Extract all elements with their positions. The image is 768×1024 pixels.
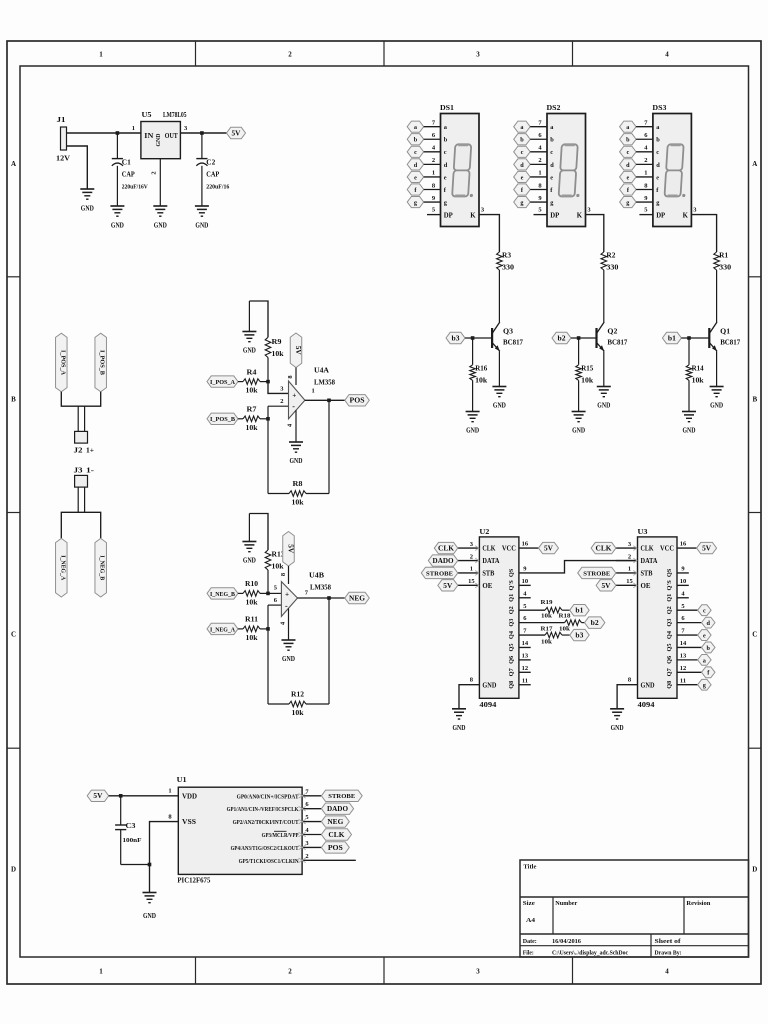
- U1 MCLR overline: [274, 830, 287, 832]
- junction U4A noninv node: [266, 380, 270, 384]
- wire DS1 segment d: [424, 163, 441, 165]
- svg-text:Q3: Q3: [508, 619, 515, 627]
- junction C3 top: [119, 794, 123, 798]
- resistor R4: [243, 379, 260, 385]
- wire Q3 emitter to ground: [498, 351, 500, 386]
- wire b3 to base: [465, 337, 492, 339]
- svg-text:U4A: U4A: [314, 367, 330, 375]
- svg-text:GND: GND: [466, 426, 479, 435]
- svg-text:220uF/16V: 220uF/16V: [122, 183, 148, 190]
- wire DS2 segment g: [530, 201, 547, 203]
- svg-text:a: a: [520, 124, 523, 131]
- port I_POS_A: [207, 376, 238, 387]
- wire R16 to ground: [472, 380, 474, 411]
- wire U2 QS to U3 DATA: [519, 561, 638, 573]
- resistor R14: [686, 365, 692, 381]
- svg-text:U4B: U4B: [309, 572, 324, 580]
- svg-text:Size: Size: [523, 900, 535, 907]
- svg-text:IN: IN: [144, 132, 153, 140]
- junction Q1 base node: [687, 336, 691, 340]
- wire from J3 pin 1: [77, 487, 79, 512]
- svg-text:3: 3: [476, 968, 480, 976]
- wire R9 to node: [267, 358, 269, 382]
- svg-text:GND: GND: [282, 654, 295, 663]
- wire R12 to output: [306, 703, 329, 705]
- svg-text:1: 1: [432, 170, 435, 177]
- wire U3 output to g: [677, 684, 698, 686]
- wire DS1 segment e: [424, 176, 441, 178]
- svg-text:b1: b1: [668, 335, 677, 342]
- port I_POS_B vertical: [95, 333, 107, 392]
- port POS: [345, 395, 370, 406]
- U2 left pin stub 1: [458, 572, 480, 574]
- wire U5 OUT to 5V port: [180, 132, 226, 134]
- svg-text:DP: DP: [444, 213, 453, 220]
- wire U2 QS' stub: [519, 584, 531, 586]
- wire VSS run: [150, 822, 179, 893]
- svg-text:Q1: Q1: [720, 328, 731, 336]
- svg-text:10k: 10k: [292, 499, 304, 507]
- svg-text:220uF/16: 220uF/16: [206, 183, 230, 190]
- svg-text:NEG: NEG: [349, 595, 366, 602]
- svg-text:DATA: DATA: [482, 558, 499, 565]
- op-amp U4A: [289, 381, 305, 419]
- svg-text:2: 2: [644, 157, 647, 164]
- port b at U3: [702, 642, 716, 653]
- svg-text:c: c: [703, 608, 706, 615]
- ground U2: [452, 709, 466, 732]
- svg-text:b3: b3: [575, 632, 584, 639]
- svg-text:1: 1: [312, 388, 315, 395]
- svg-text:K: K: [470, 213, 476, 220]
- port d at DS2: [514, 159, 531, 170]
- ground R9: [242, 332, 256, 355]
- port I_NEG_A: [207, 623, 238, 634]
- wire DS3 segment e: [636, 176, 653, 178]
- wire U3 output to f: [677, 671, 702, 673]
- resistor R12: [289, 701, 306, 707]
- svg-text:1: 1: [644, 170, 647, 177]
- svg-text:4094: 4094: [479, 702, 497, 709]
- svg-text:Drawn By:: Drawn By:: [655, 949, 682, 956]
- wire Q2 collector net from display K: [586, 215, 604, 252]
- svg-text:Q1: Q1: [508, 594, 515, 602]
- ground R13: [242, 542, 256, 565]
- svg-text:b: b: [626, 137, 630, 144]
- title block row line 1: [520, 896, 749, 898]
- port a at U3: [698, 654, 712, 665]
- power port 5V U1: [87, 790, 109, 801]
- port NEG at U1: [321, 816, 349, 827]
- svg-text:DS3: DS3: [652, 103, 666, 112]
- svg-text:5V: 5V: [93, 793, 102, 800]
- svg-text:10k: 10k: [541, 613, 552, 620]
- resistor R17: [545, 632, 562, 638]
- wire DS1 segment c: [424, 151, 441, 153]
- svg-text:C: C: [752, 631, 757, 639]
- svg-text:U5: U5: [142, 110, 152, 119]
- U1 right pin stub 7: [302, 795, 321, 797]
- svg-text:-: -: [285, 601, 288, 610]
- wire I_NEG_A to R11: [238, 628, 243, 630]
- svg-text:16/04/2016: 16/04/2016: [552, 938, 582, 945]
- wire DS2 segment e: [530, 176, 547, 178]
- svg-text:GND: GND: [453, 723, 466, 732]
- svg-text:c: c: [550, 149, 553, 156]
- wire R19 to b1: [562, 609, 570, 611]
- svg-text:GND: GND: [143, 911, 156, 920]
- svg-text:R18: R18: [559, 613, 572, 620]
- junction U4A output node: [327, 399, 331, 403]
- svg-text:5V: 5V: [443, 583, 452, 590]
- U1 right pin stub 6: [302, 808, 321, 810]
- title block column size: [552, 897, 554, 934]
- svg-text:330: 330: [719, 264, 732, 272]
- svg-text:OE: OE: [641, 583, 651, 590]
- svg-text:Date:: Date:: [523, 938, 537, 945]
- port e at DS1: [407, 171, 424, 182]
- svg-text:GND: GND: [641, 682, 655, 689]
- svg-text:1: 1: [132, 125, 135, 132]
- svg-text:VDD: VDD: [182, 793, 197, 800]
- wire Q2 emitter to ground: [603, 351, 605, 386]
- svg-text:b: b: [520, 137, 524, 144]
- svg-text:5V: 5V: [287, 544, 294, 553]
- U2 left pin stub 3: [458, 547, 480, 549]
- wire U4A feedback vertical: [328, 400, 330, 493]
- ground J1: [80, 189, 94, 213]
- svg-text:d: d: [444, 162, 448, 169]
- svg-text:DP: DP: [550, 213, 559, 220]
- wire I_NEG_B to R10: [238, 592, 243, 594]
- wire R4 to node: [260, 381, 268, 383]
- svg-text:a: a: [703, 657, 706, 664]
- svg-text:Title: Title: [523, 864, 536, 871]
- svg-text:R7: R7: [247, 406, 258, 414]
- svg-text:2: 2: [628, 553, 631, 560]
- svg-text:DATA: DATA: [641, 558, 658, 565]
- svg-text:3: 3: [476, 51, 480, 59]
- svg-text:A: A: [752, 160, 757, 168]
- wire R7 to node: [260, 418, 268, 420]
- svg-text:CLK: CLK: [641, 546, 655, 553]
- svg-text:e: e: [414, 174, 417, 181]
- svg-text:b: b: [444, 137, 448, 144]
- junction U4B output node: [327, 596, 331, 600]
- port c at U3: [698, 605, 712, 616]
- svg-text:GND: GND: [243, 556, 256, 565]
- svg-text:CLK: CLK: [438, 546, 455, 553]
- wire 5V to U4A V+: [295, 368, 297, 386]
- svg-text:c: c: [656, 149, 659, 156]
- svg-text:R8: R8: [293, 480, 304, 488]
- port b at DS3: [620, 134, 637, 145]
- wire R10 to node: [260, 592, 268, 594]
- junction VSS node: [148, 863, 152, 867]
- svg-text:b: b: [414, 137, 418, 144]
- svg-text:DADO: DADO: [433, 558, 454, 565]
- svg-text:K: K: [683, 213, 689, 220]
- svg-text:DADO: DADO: [327, 806, 348, 813]
- svg-text:U3: U3: [638, 527, 648, 536]
- port STROBE at U2: [421, 567, 458, 578]
- wire C1 bottom: [116, 166, 118, 206]
- svg-text:1: 1: [628, 566, 631, 573]
- svg-text:I_POS_B: I_POS_B: [210, 416, 236, 423]
- svg-text:1: 1: [99, 51, 103, 59]
- port I_NEG_B: [207, 588, 238, 599]
- wire U3 output to b: [677, 646, 702, 648]
- wire R13 to node: [267, 570, 269, 593]
- svg-text:Revision: Revision: [686, 900, 710, 907]
- wire R1 to collector: [716, 270, 718, 322]
- svg-text:R14: R14: [692, 364, 704, 372]
- wire U3 Q1 stub: [677, 597, 689, 599]
- svg-text:13: 13: [522, 652, 529, 659]
- jumper J3: [75, 475, 88, 487]
- svg-text:2: 2: [305, 853, 308, 860]
- svg-text:R10: R10: [245, 580, 259, 588]
- svg-text:e: e: [550, 174, 553, 181]
- svg-text:R19: R19: [541, 599, 554, 606]
- ground R16: [466, 412, 480, 435]
- svg-text:5V: 5V: [294, 346, 301, 355]
- wire DS2 segment a: [530, 126, 547, 128]
- svg-text:4: 4: [665, 51, 669, 59]
- ground R15: [572, 412, 586, 435]
- svg-text:CAP: CAP: [122, 171, 136, 179]
- svg-text:GP4/AN3/T1G/OSC2/CLKOUT: GP4/AN3/T1G/OSC2/CLKOUT: [231, 845, 300, 852]
- svg-text:GND: GND: [611, 723, 624, 732]
- svg-text:330: 330: [606, 264, 619, 272]
- svg-text:+: +: [292, 391, 296, 399]
- svg-text:12: 12: [680, 665, 687, 672]
- power port 5V U4B: [283, 532, 295, 567]
- svg-text:12V: 12V: [56, 154, 71, 163]
- svg-text:b2: b2: [558, 335, 567, 342]
- svg-text:CLK: CLK: [596, 546, 613, 553]
- svg-text:2: 2: [280, 398, 283, 405]
- svg-text:5V: 5V: [232, 130, 241, 137]
- svg-text:GP3/MCLR/VPP: GP3/MCLR/VPP: [262, 832, 299, 839]
- svg-text:1+: 1+: [86, 447, 94, 455]
- wire U4B pin6 stub: [268, 604, 281, 606]
- svg-text:BC817: BC817: [720, 339, 740, 347]
- ground U5: [153, 206, 167, 230]
- port POS at U1: [321, 842, 349, 853]
- port c at DS3: [620, 146, 637, 157]
- junction C2 top node: [200, 131, 204, 135]
- wire C2 top: [201, 133, 203, 159]
- svg-text:Q4: Q4: [666, 630, 673, 639]
- wire base node to R16: [472, 338, 474, 365]
- wire U4A V- to ground: [295, 410, 297, 442]
- wire DS1 segment a: [424, 126, 441, 128]
- svg-text:4094: 4094: [638, 702, 656, 709]
- port b at DS1: [407, 134, 424, 145]
- svg-text:I_NEG_A: I_NEG_A: [59, 555, 66, 580]
- wire node to U4B pin5: [268, 592, 281, 594]
- capacitor C3: [115, 825, 126, 830]
- svg-text:D: D: [752, 866, 757, 874]
- svg-text:d: d: [520, 162, 524, 169]
- wire b2 to base: [571, 337, 597, 339]
- wire I_POS_B to R7: [238, 418, 243, 420]
- svg-text:POS: POS: [350, 398, 365, 405]
- U1 right pin stub 5: [302, 821, 321, 823]
- svg-text:b1: b1: [575, 608, 584, 615]
- wire U2 Q4 to R17: [519, 634, 545, 636]
- port b3 base: [446, 332, 465, 343]
- wire U5 GND pin to ground: [159, 159, 161, 206]
- U2 left pin stub 15: [458, 584, 480, 586]
- wire DS3 segment g: [636, 201, 653, 203]
- resistor R15: [576, 365, 582, 381]
- port a at DS2: [514, 121, 531, 132]
- svg-text:Q2: Q2: [607, 328, 618, 336]
- ground Q3 emitter: [492, 387, 506, 410]
- port c at DS1: [407, 146, 424, 157]
- svg-text:LM358: LM358: [314, 379, 335, 387]
- svg-text:GP2/AN2/T0CKI/INT/COUT: GP2/AN2/T0CKI/INT/COUT: [233, 819, 300, 826]
- svg-text:e: e: [444, 174, 447, 181]
- svg-text:2: 2: [151, 171, 158, 174]
- title block column revision: [683, 897, 685, 934]
- U2 GND stub: [459, 685, 479, 709]
- svg-text:1: 1: [470, 566, 473, 573]
- resistor R18: [565, 620, 582, 626]
- U3 GND stub: [617, 685, 637, 709]
- ground U3: [610, 709, 624, 732]
- svg-text:CLK: CLK: [328, 832, 345, 839]
- svg-text:1: 1: [168, 788, 171, 795]
- svg-text:C: C: [11, 631, 16, 639]
- wire C3 to VSS: [121, 864, 150, 866]
- junction C1 top node: [116, 131, 120, 135]
- wire DS3 segment a: [636, 126, 653, 128]
- svg-text:5V: 5V: [544, 546, 553, 553]
- wire Q1 emitter to ground: [716, 351, 718, 386]
- resistor R11: [243, 626, 260, 632]
- port f at U3: [702, 667, 716, 678]
- ground U4B: [282, 640, 296, 663]
- port b1 at U2: [570, 605, 590, 616]
- wire base node to R15: [578, 338, 580, 365]
- svg-text:B: B: [11, 396, 16, 404]
- svg-text:c: c: [444, 149, 447, 156]
- svg-text:16: 16: [522, 541, 529, 548]
- svg-text:BC817: BC817: [503, 339, 523, 347]
- wire U4B feedback vertical: [328, 598, 330, 704]
- port STROBE at U1: [321, 790, 362, 801]
- wire DS2 segment b: [530, 138, 547, 140]
- transistor Q3: [492, 322, 500, 351]
- svg-text:VCC: VCC: [660, 546, 674, 553]
- resistor R16: [470, 365, 476, 381]
- wire U4A gnd stub: [248, 301, 250, 332]
- svg-text:I_NEG_B: I_NEG_B: [210, 591, 236, 598]
- port b2 base: [552, 332, 571, 343]
- U1 right pin stub 4: [302, 834, 321, 836]
- svg-text:R12: R12: [291, 691, 305, 699]
- svg-text:Q8: Q8: [508, 681, 515, 689]
- svg-text:10k: 10k: [272, 563, 284, 571]
- wire U3 output to d: [677, 622, 702, 624]
- wire DS1 segment f: [424, 189, 441, 191]
- svg-text:C2: C2: [206, 158, 216, 166]
- svg-text:e: e: [626, 174, 629, 181]
- wire U2 Q2 to R19: [519, 609, 545, 611]
- power port 5V U2 VCC: [539, 542, 559, 553]
- wire C1 top: [116, 133, 118, 159]
- junction U4B noninv node: [266, 592, 270, 596]
- wire DS3 segment c: [636, 151, 653, 153]
- svg-text:Q6: Q6: [508, 656, 515, 664]
- port 5V at U3 OE: [596, 580, 616, 591]
- svg-text:I_NEG_A: I_NEG_A: [210, 626, 235, 633]
- port CLK at U1: [321, 829, 351, 840]
- svg-text:R2: R2: [606, 252, 616, 260]
- svg-text:10k: 10k: [272, 350, 284, 358]
- wire Q3 collector net from display K: [479, 215, 499, 252]
- svg-text:a: a: [626, 124, 629, 131]
- ground U1: [143, 893, 157, 921]
- svg-text:b: b: [707, 645, 711, 652]
- resistor R10: [243, 591, 260, 597]
- svg-text:10k: 10k: [475, 376, 487, 384]
- svg-text:GND: GND: [154, 221, 167, 230]
- wire R18 to b2: [582, 622, 585, 624]
- power port 5V U3 VCC: [697, 542, 717, 553]
- svg-text:4: 4: [665, 968, 669, 976]
- wire U4B top loop: [249, 514, 268, 551]
- svg-text:QS: QS: [508, 568, 515, 577]
- shift register U2 body: [479, 537, 519, 698]
- wire 5V to U4B V+: [288, 566, 290, 584]
- wire U2 output stub: [519, 659, 531, 661]
- display DS3 digit: [664, 144, 688, 197]
- svg-text:STROBE: STROBE: [583, 570, 610, 577]
- wire DS2 DP stub: [534, 214, 548, 216]
- svg-text:15: 15: [468, 578, 475, 585]
- display DS3 body: [653, 114, 692, 227]
- svg-text:GP0/AN0/CIN+/ICSPDAT: GP0/AN0/CIN+/ICSPDAT: [237, 793, 300, 800]
- mcu U1 body: [178, 787, 302, 874]
- port DADO at U2: [428, 555, 458, 566]
- port b3 at U2: [570, 629, 590, 640]
- svg-text:15: 15: [626, 578, 633, 585]
- svg-text:BC817: BC817: [607, 339, 627, 347]
- svg-text:e: e: [656, 174, 659, 181]
- U3 left pin stub 15: [616, 584, 638, 586]
- svg-text:I_POS_A: I_POS_A: [210, 379, 235, 386]
- svg-text:B: B: [752, 396, 757, 404]
- title block row line 3: [520, 945, 749, 947]
- svg-text:Q7: Q7: [508, 668, 515, 676]
- port a at DS3: [620, 121, 637, 132]
- port g at DS2: [514, 196, 531, 207]
- port g at DS1: [407, 196, 424, 207]
- resistor R9: [265, 337, 271, 357]
- svg-text:10k: 10k: [292, 709, 304, 717]
- svg-text:14: 14: [680, 640, 687, 647]
- svg-text:J1: J1: [57, 115, 66, 124]
- wire U2 Q3 to R18: [519, 622, 565, 624]
- wire C3 bottom: [120, 830, 122, 865]
- svg-text:2: 2: [288, 51, 292, 59]
- svg-text:GND: GND: [683, 426, 696, 435]
- resistor R2: [601, 252, 607, 270]
